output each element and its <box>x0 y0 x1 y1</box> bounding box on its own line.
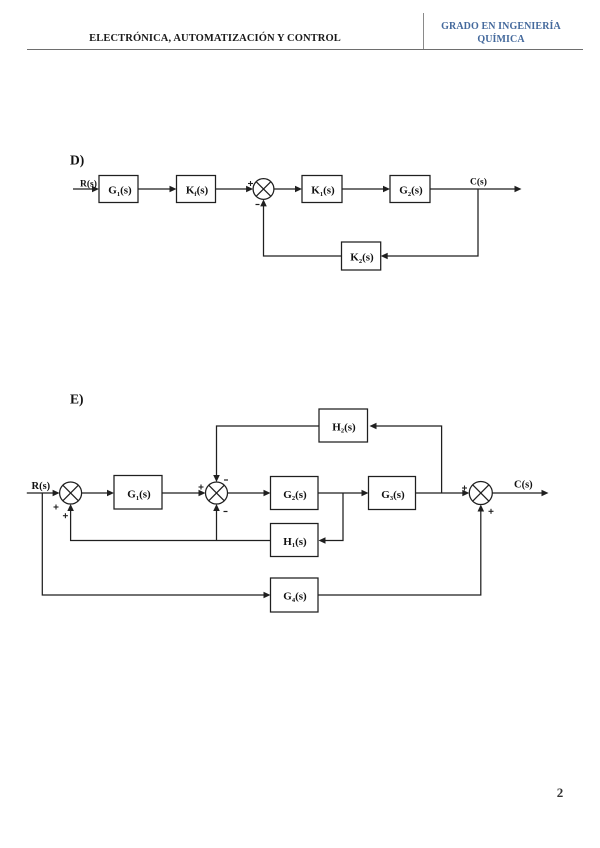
wire G4 output to sum3 bottom <box>318 508 481 595</box>
block G3(s) (diagram E) <box>369 477 416 510</box>
wire sum3 to output C(s) <box>492 492 543 494</box>
svg-text:H2(s): H2(s) <box>332 421 356 434</box>
wire feedback takeoff down from output (diagram D) <box>387 189 479 256</box>
block H2(s) (diagram E) <box>319 409 368 442</box>
block G1(s) (diagram E) <box>114 476 162 510</box>
header right title <box>421 21 581 46</box>
wire sum2 to G2 <box>228 492 266 494</box>
wire G3 to summing junction 3 with takeoff node <box>416 492 465 494</box>
minus sign sum2 bottom input <box>224 511 228 513</box>
svg-text:E): E) <box>70 392 84 407</box>
wire G2 to G3 with takeoff node <box>318 492 363 494</box>
plus sign sum3 horizontal input <box>462 486 467 491</box>
plus sign sum2 horizontal input <box>199 485 204 490</box>
wire branch from H1 return up to sum2 bottom <box>216 508 218 541</box>
summing junction 3 (diagram E) <box>469 482 492 505</box>
minus sign below summing junction D <box>256 204 260 206</box>
block K1(s) (diagram D) <box>302 176 342 203</box>
minus sign sum2 top input <box>224 479 228 481</box>
block G2(s) (diagram D) <box>390 176 430 203</box>
block Kf(s) (diagram D) <box>177 176 216 203</box>
wire H2 output to sum2 top <box>217 426 320 477</box>
header vertical divider <box>423 13 424 50</box>
plus sign sum1 vertical input <box>63 513 68 518</box>
svg-text:G4(s): G4(s) <box>283 591 307 604</box>
summing junction D <box>253 179 274 200</box>
wire G2 to output C(s) <box>430 188 516 190</box>
svg-text:C(s): C(s) <box>470 177 487 188</box>
wire H1 output back to sum1 bottom <box>71 508 271 541</box>
svg-text:R(s): R(s) <box>32 481 51 492</box>
wire Kf to summing junction <box>216 188 249 190</box>
block H1(s) (diagram E) <box>271 524 319 557</box>
block K2(s) feedback (diagram D) <box>342 242 381 270</box>
plus sign at summing junction D <box>248 181 253 186</box>
wire takeoff after G3 up to H2 <box>375 426 442 493</box>
header horizontal rule <box>27 49 583 50</box>
svg-text:G2(s): G2(s) <box>283 489 307 502</box>
plus sign sum3 bottom input <box>489 509 494 514</box>
svg-text:G3(s): G3(s) <box>381 489 405 502</box>
block G1(s) (diagram D) <box>99 176 138 203</box>
svg-text:G1(s): G1(s) <box>108 185 132 198</box>
plus sign sum1 horizontal input <box>54 505 59 510</box>
summing junction 1 (diagram E) <box>60 482 82 504</box>
page number 2 <box>553 785 567 801</box>
svg-text:K2(s): K2(s) <box>350 252 374 265</box>
svg-text:D): D) <box>70 153 84 168</box>
wire summing junction to K1 <box>274 188 297 190</box>
wire takeoff after G2 down to H1 <box>324 493 343 541</box>
svg-text:Kf(s): Kf(s) <box>186 185 209 198</box>
wire R(s) takeoff down to G4 <box>42 493 265 595</box>
wire G1 to Kf <box>138 188 171 190</box>
block G4(s) (diagram E) <box>271 578 319 612</box>
header left title <box>3 34 427 44</box>
wire K2 output back to summing junction D <box>264 204 342 257</box>
block G2(s) (diagram E) <box>271 477 319 510</box>
wire sum1 to G1 <box>82 492 109 494</box>
svg-text:H1(s): H1(s) <box>283 536 307 549</box>
svg-text:K1(s): K1(s) <box>311 185 335 198</box>
svg-text:C(s): C(s) <box>514 480 533 491</box>
svg-text:G2(s): G2(s) <box>399 185 423 198</box>
wire K1 to G2 <box>342 188 385 190</box>
wire R(s) input to summing junction 1 <box>27 492 54 494</box>
summing junction 2 (diagram E) <box>206 482 228 504</box>
svg-text:G1(s): G1(s) <box>127 489 151 502</box>
wire G1 to summing junction 2 <box>162 492 200 494</box>
wire R(s) input to G1 <box>73 188 93 190</box>
